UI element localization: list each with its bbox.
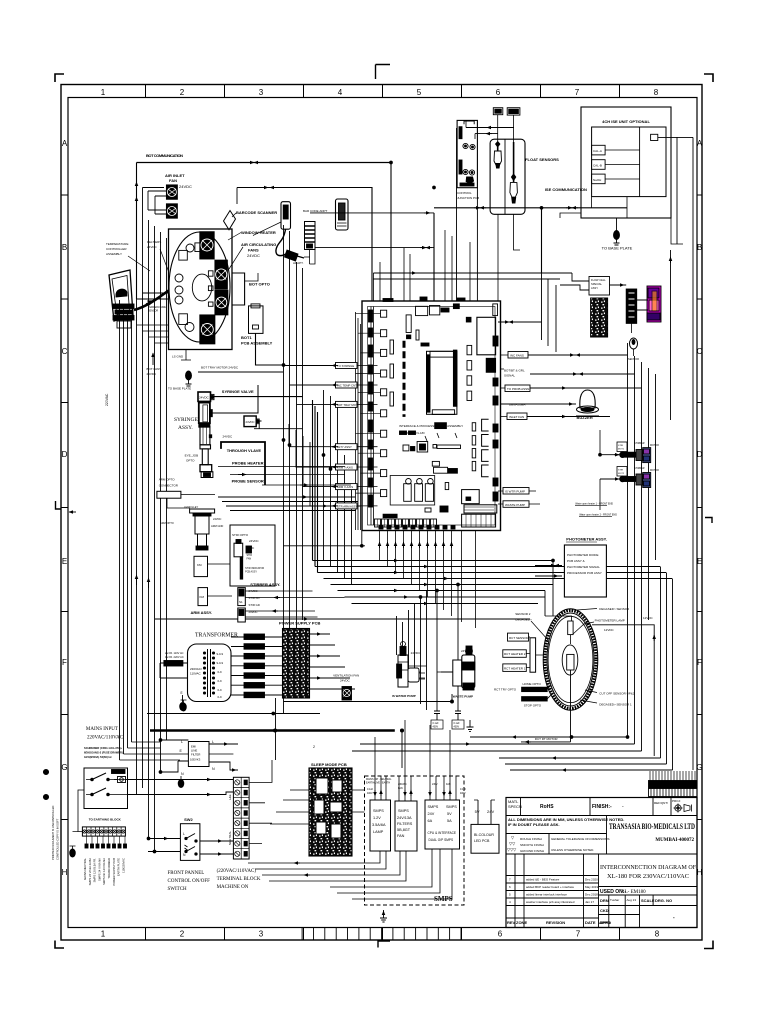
ruler ticks bottom <box>146 928 620 941</box>
svg-text:May 2019: May 2019 <box>585 885 599 889</box>
svg-text:0.1uF: 0.1uF <box>460 788 467 791</box>
svg-text:IS WTR PUMP: IS WTR PUMP <box>505 490 525 494</box>
svg-text:TO EARTHING BLOCK: TO EARTHING BLOCK <box>89 818 122 822</box>
svg-text:BOT1: BOT1 <box>241 335 252 340</box>
svg-text:FLOW CELL: FLOW CELL <box>591 278 606 282</box>
ISE wire right out <box>658 136 683 138</box>
fuse texts <box>246 636 262 698</box>
stubs into left connectors <box>356 314 381 493</box>
svg-text:EYE_JOB: EYE_JOB <box>185 454 199 458</box>
svg-text:KM: KM <box>200 595 205 599</box>
svg-text:5B,8GT: 5B,8GT <box>397 828 411 832</box>
right label IS WTR PUMP <box>503 488 529 495</box>
arrow up small <box>152 353 154 365</box>
svg-text:3: 3 <box>259 930 264 939</box>
svg-text:SMPS 24 V/ 6A NA: SMPS 24 V/ 6A NA <box>97 858 101 881</box>
svg-text:LED PCB: LED PCB <box>474 839 490 843</box>
svg-text:SMPS: SMPS <box>398 809 409 813</box>
inner border frame <box>68 98 697 928</box>
internal ICs <box>390 304 498 527</box>
WASTE PUMP <box>441 646 475 690</box>
wires breaker to right <box>128 779 234 781</box>
svg-text:CONTROL: CONTROL <box>457 191 472 195</box>
label CONTROL JUNCTION PCB <box>457 191 479 200</box>
ground base plate top-left <box>186 371 192 386</box>
stirrer motor 1 labels <box>634 442 659 447</box>
pcb-left vertical bus <box>356 312 361 530</box>
reaction tray outer ring <box>543 609 598 711</box>
svg-text:SMPS: SMPS <box>373 809 384 813</box>
svg-text:FINISH:-: FINISH:- <box>592 804 612 810</box>
svg-text:PHOTOMETER DIODE: PHOTOMETER DIODE <box>567 553 598 557</box>
svg-text:F2 800mA: F2 800mA <box>246 645 262 649</box>
svg-text:0-9: 0-9 <box>218 688 222 692</box>
svg-text:F6 800mA: F6 800mA <box>246 684 262 688</box>
svg-text:OPTO: OPTO <box>186 459 195 463</box>
svg-text:D: D <box>62 450 68 459</box>
svg-text:230VAC/: 230VAC/ <box>190 667 202 671</box>
junction arrows second wire <box>262 187 268 189</box>
right edge C-brackets <box>482 419 489 477</box>
wires transformer to fuses <box>231 637 244 695</box>
svg-text:CONTROLLER: CONTROLLER <box>106 247 127 251</box>
wire cj down to pcb <box>457 128 478 301</box>
svg-text:CAL-A: CAL-A <box>593 149 602 153</box>
gray step wires photometer <box>575 506 612 517</box>
svg-text:BOT FANS: BOT FANS <box>147 367 162 371</box>
svg-text:DATE: DATE <box>585 920 596 925</box>
fuse F1 black label <box>164 661 183 667</box>
svg-text:5: 5 <box>417 88 422 97</box>
fan circulating 3 <box>215 290 228 315</box>
earth symbol at comb <box>70 832 79 858</box>
wires to lower right labels <box>498 491 540 504</box>
svg-text:DEGASED> SENSOR 1: DEGASED> SENSOR 1 <box>599 702 632 706</box>
wires 5V/24V down to LED pcb <box>478 800 491 824</box>
earth EMI <box>178 776 184 788</box>
svg-text:6: 6 <box>496 88 501 97</box>
svg-text:ADAPT.: ADAPT. <box>293 261 304 265</box>
wire BOT communication horizontal <box>137 162 392 164</box>
svg-text:10EVK3: 10EVK3 <box>190 758 201 762</box>
scanner plug <box>285 250 305 261</box>
svg-text:E: E <box>697 557 702 566</box>
svg-text:E: E <box>181 691 183 695</box>
svg-text:24VDC: 24VDC <box>246 420 255 424</box>
svg-text:FLOAT SENSORS: FLOAT SENSORS <box>525 157 559 162</box>
svg-text:24V/13A: 24V/13A <box>397 816 412 820</box>
svg-text:24VDC: 24VDC <box>147 245 158 249</box>
svg-text:CONTROL ON/OFF: CONTROL ON/OFF <box>168 879 211 884</box>
svg-text:DRN: DRN <box>600 898 609 903</box>
right label WASTE PUMP <box>503 501 529 508</box>
transformer winding dots left <box>203 652 205 694</box>
wires transformer left <box>160 663 188 678</box>
svg-text:0.1uF: 0.1uF <box>367 788 374 791</box>
svg-text:110/220VAC: 110/220VAC <box>121 858 125 873</box>
ground cap <box>467 720 474 732</box>
BOT1 PCB box <box>249 304 264 334</box>
colored blob <box>647 286 661 322</box>
breaker box <box>84 768 128 809</box>
transformer secondary labels <box>217 652 224 699</box>
svg-text:FUSE F7: FUSE F7 <box>166 662 181 666</box>
svg-text:SYRINGE: SYRINGE <box>174 417 198 423</box>
wires syringe area <box>214 396 303 398</box>
wire relay right <box>498 321 542 323</box>
wire float down <box>498 214 520 301</box>
outer border frame <box>61 85 702 941</box>
ruler letters right <box>696 139 702 877</box>
BOT OPTO bracket <box>232 273 245 305</box>
svg-text:STR ARM ASSY: STR ARM ASSY <box>337 504 358 508</box>
svg-text:SENSOR: SENSOR <box>148 309 158 312</box>
svg-text:EARTH PLATE: EARTH PLATE <box>117 858 121 876</box>
svg-text:SYRINGE VALVE: SYRINGE VALVE <box>222 389 254 394</box>
svg-text:24VDC: 24VDC <box>213 517 221 521</box>
svg-text:2: 2 <box>313 745 315 749</box>
leader window heater <box>228 222 281 240</box>
ISE bottle CAL-B <box>592 160 606 170</box>
svg-text:Dec 2018: Dec 2018 <box>585 893 598 897</box>
corner mark top-left <box>55 74 64 82</box>
SMPS box 2 <box>395 801 417 851</box>
svg-text:ASSEMBLY: ASSEMBLY <box>106 252 122 256</box>
wires left labels to pcb <box>357 366 378 506</box>
transformer core <box>208 649 211 697</box>
svg-text:SCHREINER (CD04-1.KG-3T2)+: SCHREINER (CD04-1.KG-3T2)+ <box>84 746 123 750</box>
doc control black bar <box>649 781 698 789</box>
ventilation fan <box>342 687 352 701</box>
capacitor group 2 <box>452 704 464 729</box>
SIMM dashed bar <box>403 341 406 417</box>
left margin vertical text <box>51 806 60 860</box>
svg-text:Aug 13: Aug 13 <box>627 898 637 902</box>
svg-text:N: N <box>181 772 184 776</box>
power supply pcb dense <box>283 629 310 699</box>
svg-text:S1: S1 <box>239 600 243 604</box>
svg-text:DEGASED> SENSOR: DEGASED> SENSOR <box>599 607 630 611</box>
corner mark bottom-left <box>55 941 64 949</box>
RCT HEATER 2 box <box>503 650 527 658</box>
wire y279 <box>373 278 560 280</box>
svg-text:JUNCTION PCB: JUNCTION PCB <box>457 196 479 200</box>
svg-text:F4 800mA: F4 800mA <box>246 665 262 669</box>
svg-text:Tushar: Tushar <box>610 898 619 902</box>
svg-text:FILTER: FILTER <box>191 753 200 757</box>
lower mid verticals to SMPS <box>397 591 427 711</box>
mouse opto <box>630 338 638 356</box>
left bus bottom links <box>120 742 234 760</box>
svg-text:MUMBAI-400072: MUMBAI-400072 <box>655 838 694 843</box>
leader temperature controller <box>128 256 150 271</box>
svg-text:B: B <box>697 243 702 252</box>
svg-text:SWITCH: SWITCH <box>168 887 188 892</box>
IS WATER PUMP <box>397 642 425 688</box>
stirrer motor 1 shaft <box>620 448 651 463</box>
svg-text:ARM OPTO: ARM OPTO <box>159 478 176 482</box>
svg-text:STIR: STIR <box>618 470 623 472</box>
leader lines tray <box>531 609 597 641</box>
svg-text:CONTROLLED COPY IS IN SOFT: CONTROLLED COPY IS IN SOFT <box>56 818 60 860</box>
label terminal block <box>217 869 261 890</box>
wire scanner to right <box>304 250 310 264</box>
wire ISE comm drop <box>541 208 543 273</box>
wires below SMPS going left <box>248 851 380 863</box>
ruler letters left <box>61 139 67 877</box>
svg-text:12VDC: 12VDC <box>604 628 615 632</box>
svg-text:1.2V: 1.2V <box>373 816 381 820</box>
svg-text:PHOTOMETER SIGNAL: PHOTOMETER SIGNAL <box>567 565 600 569</box>
svg-text:LM PULLEY: LM PULLEY <box>184 505 199 509</box>
wire to buzzer <box>501 403 577 405</box>
top slot on ring <box>568 621 573 635</box>
wires heater boxes to bar <box>526 637 543 668</box>
photometer box text <box>567 553 602 575</box>
svg-text:MOTOR: MOTOR <box>650 469 659 472</box>
svg-text:2a FR. 110V AC: 2a FR. 110V AC <box>165 651 184 655</box>
svg-text:PROJ:: PROJ: <box>672 799 681 803</box>
breaker fuse label <box>112 770 126 774</box>
arm assy plate <box>190 509 215 550</box>
top edge components <box>383 297 465 302</box>
barcode adapter box <box>336 199 349 230</box>
temp controller connector stack <box>113 304 134 328</box>
row1 cells <box>506 815 697 817</box>
row2/3 <box>506 833 607 835</box>
svg-text:POWER SUPPLY PCB: POWER SUPPLY PCB <box>112 858 116 886</box>
svg-text:3.5A/6A: 3.5A/6A <box>372 823 386 827</box>
smps small labels <box>366 778 467 795</box>
wire to base plate drop <box>616 218 618 231</box>
ruler numbers top <box>101 88 659 97</box>
svg-text:TERMINAL BLOCK: TERMINAL BLOCK <box>217 877 261 882</box>
fan air inlet 2 <box>166 204 177 218</box>
svg-text:2: 2 <box>180 88 185 97</box>
temp sensor thick lead <box>134 290 170 311</box>
wires labels to right bus <box>527 355 642 417</box>
svg-text:MACHINE ON: MACHINE ON <box>217 885 249 890</box>
svg-text:ROUGH FINISH: ROUGH FINISH <box>520 837 542 841</box>
EMI filter box <box>188 742 209 767</box>
svg-text:BLTY ASSY: BLTY ASSY <box>337 445 352 449</box>
wire bot tray motor <box>198 371 283 373</box>
svg-text:RCT RT MOTOR: RCT RT MOTOR <box>535 737 559 741</box>
svg-text:220VAC/110VAC: 220VAC/110VAC <box>87 736 124 741</box>
ISE bottle NaOH <box>592 174 606 184</box>
svg-text:7: 7 <box>576 930 581 939</box>
ISE inner bottom step <box>592 197 627 218</box>
label BOT1 PCB ASSEMBLY <box>241 335 273 346</box>
right black module <box>626 289 637 323</box>
bottom edge black marks <box>379 526 455 530</box>
svg-text:THROUGH VLAVE: THROUGH VLAVE <box>227 448 262 453</box>
svg-text:D: D <box>697 450 703 459</box>
svg-text:RCT HEATER 2: RCT HEATER 2 <box>504 652 526 656</box>
svg-text:MAINS NEUTRAL: MAINS NEUTRAL <box>83 858 87 880</box>
corner mark bottom-right <box>704 941 713 949</box>
svg-text:FRONT PANNEL: FRONT PANNEL <box>168 871 205 876</box>
right label INLET FAN <box>507 413 527 420</box>
svg-text:added BKP reader board + inter: added BKP reader board + interface <box>526 885 574 889</box>
svg-text:RCT HEATER 1: RCT HEATER 1 <box>504 666 526 670</box>
svg-text:CAL-B: CAL-B <box>593 163 602 167</box>
svg-text:F5 800mA: F5 800mA <box>246 674 262 678</box>
probe region rows <box>218 497 361 511</box>
right bus vertical long <box>677 137 693 770</box>
arrows ISE comm <box>566 207 572 209</box>
svg-text:PCB ASSEMBLY: PCB ASSEMBLY <box>241 341 273 346</box>
transformer winding dots right <box>212 652 214 694</box>
cj pin circles <box>463 143 475 175</box>
svg-text:5V: 5V <box>447 812 452 816</box>
fan air inlet 1 <box>166 185 177 199</box>
wire vertical to PCB top <box>390 163 392 302</box>
svg-text:DEGASSER: DEGASSER <box>509 403 527 407</box>
svg-text:N: N <box>212 767 215 771</box>
svg-text:WASTE PUMP: WASTE PUMP <box>453 695 473 699</box>
earth top <box>181 700 187 711</box>
photometer box <box>564 545 606 597</box>
svg-text:C: C <box>697 347 703 356</box>
svg-text:BAR CODE ADPT: BAR CODE ADPT <box>303 209 328 213</box>
mid small parts <box>425 433 457 441</box>
svg-text:STIRRER ASSY.: STIRRER ASSY. <box>250 582 280 587</box>
right label INC FANS <box>508 352 528 359</box>
sleep mode pcb dense <box>309 768 352 856</box>
svg-text:washer interface pcb assy illu: washer interface pcb assy illustrated <box>526 900 575 904</box>
svg-text:6EHOGANG-2 (FUSE DRAWER): 6EHOGANG-2 (FUSE DRAWER) <box>84 751 123 755</box>
svg-text:0-9: 0-9 <box>218 670 222 674</box>
ruler ticks left <box>61 195 68 820</box>
wires SW2 <box>148 838 180 840</box>
svg-text:SMPS 12V/3.5A FR.: SMPS 12V/3.5A FR. <box>93 858 97 883</box>
svg-text:IS WATER PUMP: IS WATER PUMP <box>392 694 416 698</box>
svg-text:DUAL O/P SMPS: DUAL O/P SMPS <box>429 838 454 842</box>
svg-text:RCT TRY OPTO: RCT TRY OPTO <box>494 688 517 692</box>
svg-text:REF/QNT/: REF/QNT/ <box>654 801 668 805</box>
svg-text:24VDC: 24VDC <box>340 679 351 683</box>
right edge connectors <box>493 336 498 501</box>
svg-text:TO BASE PLATE: TO BASE PLATE <box>168 387 191 391</box>
right horizontals to circle area <box>531 561 572 629</box>
svg-text:L: L <box>181 740 183 744</box>
svg-text:TO BASE PLATE: TO BASE PLATE <box>602 246 633 251</box>
svg-text:0-9: 0-9 <box>218 679 222 683</box>
svg-text:Dec 2020: Dec 2020 <box>585 878 598 882</box>
svg-text:DRG. NO: DRG. NO <box>655 898 672 903</box>
SMPS box 3 <box>425 800 460 849</box>
svg-text:HOME OPTO: HOME OPTO <box>523 682 542 686</box>
svg-text:PROBE HEATER: PROBE HEATER <box>232 461 264 466</box>
transformer body <box>188 644 232 702</box>
svg-text:FAN: FAN <box>169 178 177 183</box>
right verticals <box>628 343 642 751</box>
leader peltiers <box>160 249 179 299</box>
left connector column <box>381 310 387 496</box>
svg-text:ASSY.: ASSY. <box>178 425 193 431</box>
stirrer motor 2 labels <box>634 467 659 472</box>
svg-text:H: H <box>62 868 68 877</box>
svg-text:BOT OPTO: BOT OPTO <box>249 282 270 287</box>
svg-text:STIR OPTO: STIR OPTO <box>232 533 249 537</box>
right label BOT/BT <box>504 369 525 378</box>
svg-text:8: 8 <box>654 88 659 97</box>
svg-text:F: F <box>62 658 67 667</box>
svg-text:SLEEP MODE PCB: SLEEP MODE PCB <box>311 762 347 767</box>
horizontals upper mid <box>137 293 169 299</box>
small squares in chamber <box>179 250 188 260</box>
wire ISE step bottom <box>560 213 683 244</box>
label SYRINGE ASSY <box>174 417 198 431</box>
float sensors box <box>490 139 525 214</box>
svg-text:220VAC: 220VAC <box>105 393 109 406</box>
svg-text:TO PROB ASSN: TO PROB ASSN <box>507 387 529 391</box>
row of connectors mid <box>403 445 409 451</box>
svg-text:Water open heater 2 - FRONT EN: Water open heater 2 - FRONT END <box>579 514 617 517</box>
leader barcode <box>232 213 236 217</box>
arm motor KM1 <box>194 556 208 576</box>
earthing comb <box>82 827 125 836</box>
left label texts <box>337 364 358 508</box>
fan bot 4 <box>200 315 215 344</box>
label FRONT PANNEL <box>168 871 211 892</box>
svg-text:SENSOR 2: SENSOR 2 <box>515 612 531 616</box>
fuse boxes F1-F7 <box>244 634 265 698</box>
svg-text:9-0-9: 9-0-9 <box>217 661 224 665</box>
svg-text:0-9: 0-9 <box>218 695 222 699</box>
scanner cable <box>276 230 287 256</box>
wire ISE comm <box>434 207 627 209</box>
label temperature sensor <box>148 306 166 312</box>
comb feeder wires <box>650 771 695 781</box>
svg-text:L: L <box>183 832 185 836</box>
scanner handle <box>281 202 291 230</box>
svg-text:24VDC: 24VDC <box>247 547 255 550</box>
svg-text:BI-COLOUR: BI-COLOUR <box>474 833 494 837</box>
svg-text:▽▽: ▽▽ <box>509 841 516 846</box>
wire bot opto <box>245 273 258 281</box>
wire scanner comm <box>310 212 434 214</box>
wires arm motors <box>208 556 233 596</box>
svg-text:SMPS: SMPS <box>428 805 439 809</box>
svg-text:230VAC: 230VAC <box>398 783 407 786</box>
svg-text:(220VAC/110VAC): (220VAC/110VAC) <box>217 869 257 874</box>
svg-text:PROBE SENSOR: PROBE SENSOR <box>232 479 264 484</box>
svg-text:1: 1 <box>101 930 106 939</box>
svg-text:CKD: CKD <box>600 908 609 913</box>
RCT SENSOR box <box>508 633 530 641</box>
inner ellipse <box>192 274 211 301</box>
wires arm opto <box>167 495 215 509</box>
svg-text:GZC(B500A) 5X(60) Hz: GZC(B500A) 5X(60) Hz <box>84 755 112 759</box>
text-left black block <box>435 423 447 429</box>
earthing pins <box>85 844 127 848</box>
svg-text:BOT/BT & GRL: BOT/BT & GRL <box>504 369 525 373</box>
long horizontals under transformer <box>147 713 320 715</box>
svg-text:ZONE: ZONE <box>516 920 527 925</box>
wires pcb right to labels <box>501 355 510 417</box>
svg-text:ARM ASSY.: ARM ASSY. <box>191 610 213 615</box>
svg-text:XL- EM180: XL- EM180 <box>621 890 646 895</box>
svg-text:Water open heater 1 - FRONT EN: Water open heater 1 - FRONT END <box>575 503 613 506</box>
small circles <box>175 274 183 282</box>
capacitor group 1 <box>431 704 443 729</box>
arm opto connector long box <box>157 491 181 498</box>
lower horizontal bundle <box>155 597 545 619</box>
RCT HEATER 1 box <box>503 664 527 672</box>
bottom right horizontals <box>352 737 642 751</box>
